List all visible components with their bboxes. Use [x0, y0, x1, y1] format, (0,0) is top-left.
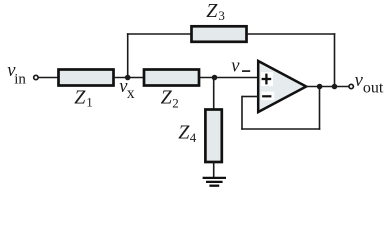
ground: [203, 177, 226, 179]
node v_x: [125, 75, 131, 81]
svg-text:Z: Z: [206, 0, 218, 22]
svg-text:3: 3: [218, 8, 225, 23]
resistor Z4: [205, 110, 221, 163]
svg-text:Z: Z: [178, 122, 190, 144]
terminal v_out: [349, 84, 353, 88]
svg-text:2: 2: [172, 96, 179, 111]
wire Z1 to Z2: [114, 77, 144, 79]
svg-text:in: in: [14, 72, 26, 88]
wire Z4 to ground: [213, 162, 215, 178]
terminal v_in: [34, 75, 38, 79]
wire top left segment: [127, 33, 192, 35]
wire top right segment: [247, 33, 336, 35]
op-amp plus pin mark: [261, 72, 273, 86]
op-amp minus pin mark: [261, 92, 274, 100]
wire minus input: [242, 96, 258, 98]
svg-text:4: 4: [190, 130, 197, 145]
node Z3 junction: [332, 84, 338, 90]
wire riser down to output: [334, 33, 336, 86]
wire input to Z1: [39, 77, 58, 79]
wire output: [306, 86, 349, 88]
wire feedback right vertical: [319, 87, 321, 130]
wire feedback bottom: [241, 128, 320, 130]
wire riser from v_x to top: [127, 33, 129, 77]
op-amp U1: [258, 61, 306, 112]
svg-text:x: x: [127, 85, 135, 102]
svg-text:Z: Z: [74, 87, 86, 109]
node Z4 tap: [212, 75, 218, 81]
resistor Z3: [192, 26, 247, 42]
svg-text:Z: Z: [161, 87, 173, 109]
wire down to Z4: [213, 78, 215, 111]
node feedback junction: [317, 84, 323, 90]
resistor Z2: [144, 70, 199, 86]
svg-text:v: v: [231, 57, 240, 77]
svg-text:out: out: [363, 80, 384, 97]
wire feedback left vertical: [241, 96, 243, 130]
resistor Z1: [59, 70, 114, 86]
svg-text:1: 1: [86, 95, 93, 110]
wire Z2 to op-amp: [199, 77, 258, 79]
